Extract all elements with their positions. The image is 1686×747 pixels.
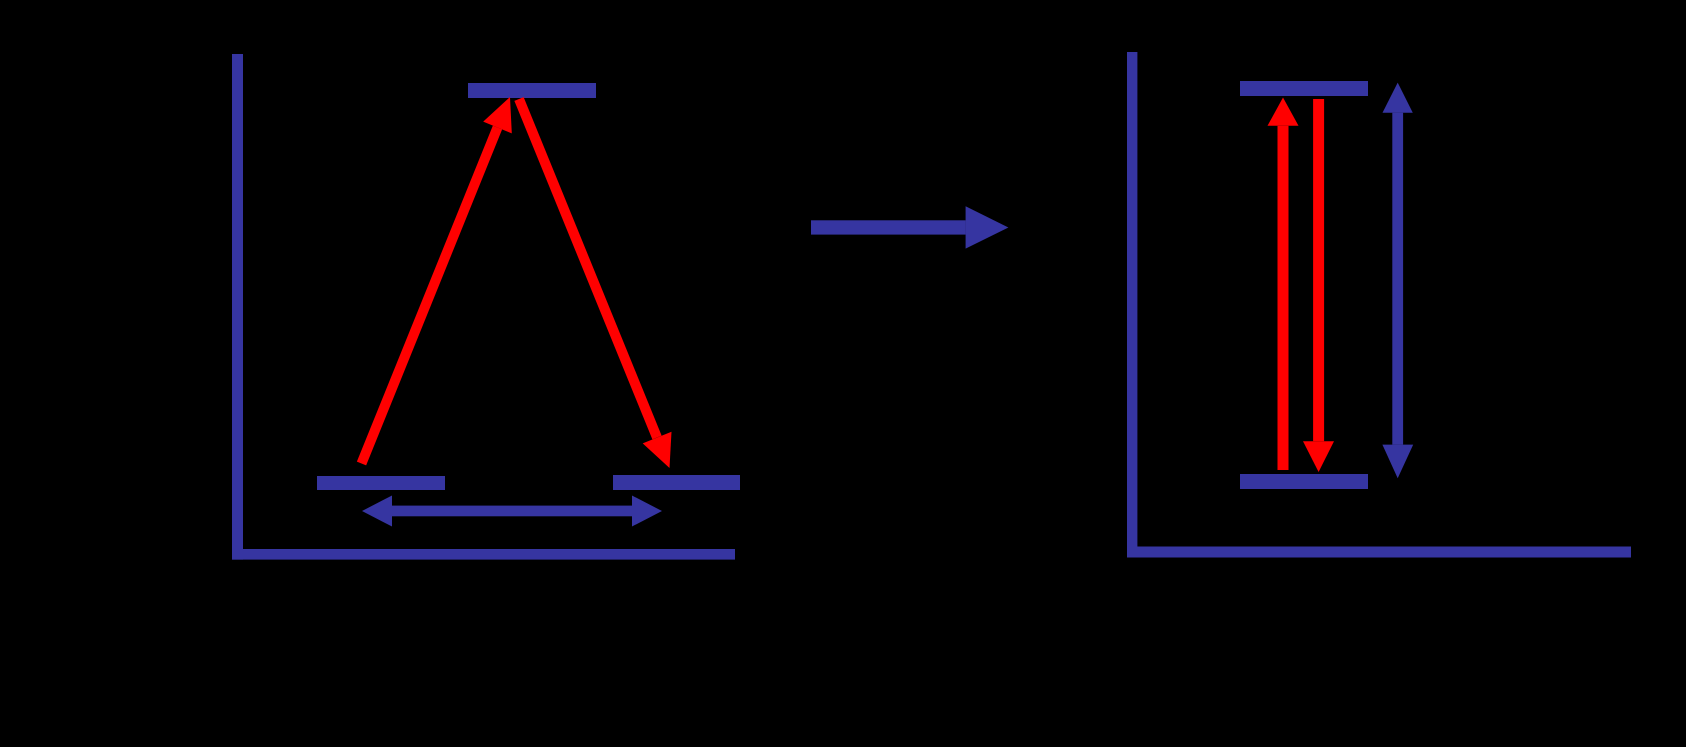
middle transformation arrow	[811, 206, 1008, 248]
right lower level bar	[1240, 474, 1368, 489]
left lower-left level bar	[317, 476, 445, 490]
red decay arrow (down-right leg of lambda)	[519, 99, 672, 468]
blue double-headed horizontal arrow (ground-state coupling)	[362, 496, 662, 527]
blue double-headed vertical arrow (transition energy)	[1382, 83, 1413, 479]
left axis vertical line	[232, 54, 243, 560]
right axis horizontal line	[1127, 547, 1631, 558]
red emission arrow (down)	[1303, 99, 1334, 472]
right axis vertical line	[1127, 52, 1137, 557]
red pump arrow (up-left leg of lambda)	[362, 97, 512, 464]
left lower-right level bar	[613, 475, 740, 490]
left upper level bar	[468, 83, 596, 98]
left axis horizontal line	[232, 549, 735, 560]
red absorption arrow (up)	[1268, 98, 1299, 471]
right upper level bar	[1240, 81, 1368, 96]
